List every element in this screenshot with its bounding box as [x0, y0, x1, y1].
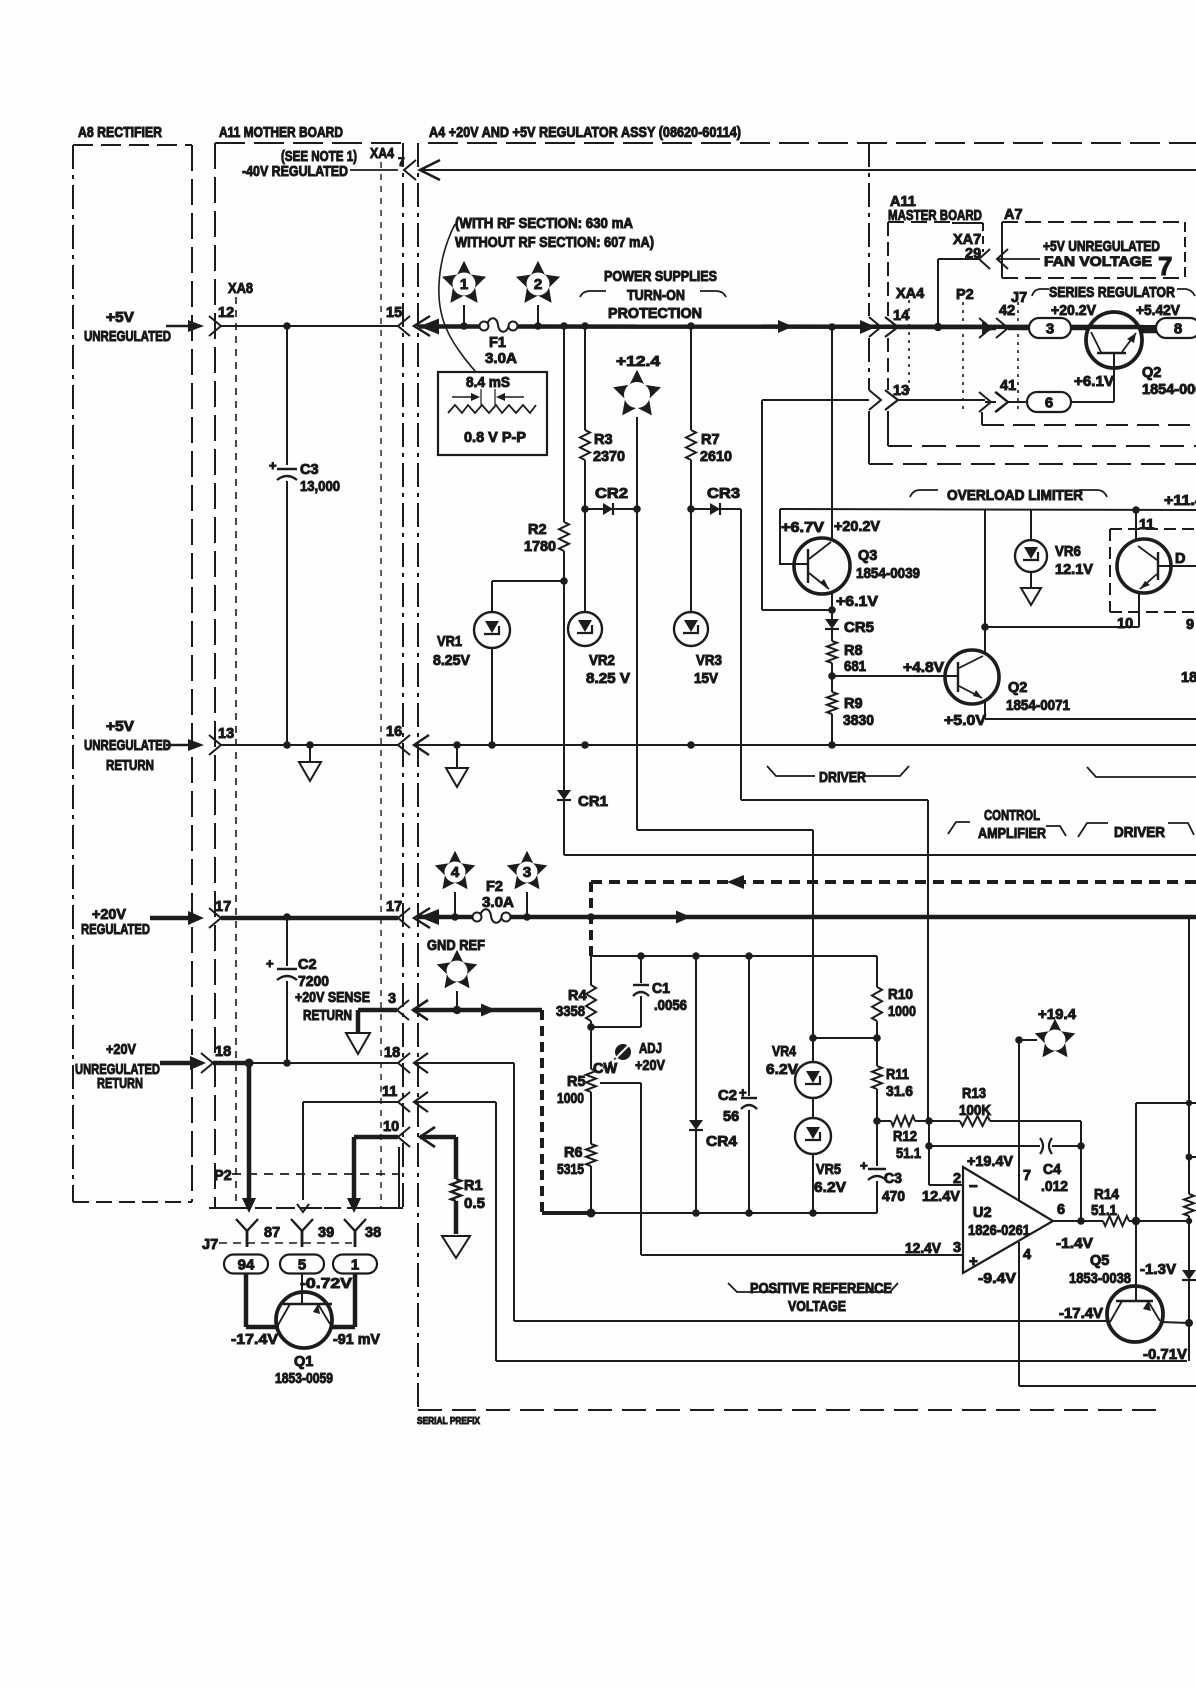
svg-text:+20.2V: +20.2V	[1051, 303, 1096, 319]
svg-text:-17.4V: -17.4V	[1059, 1306, 1103, 1322]
svg-text:56: 56	[723, 1109, 739, 1125]
svg-text:-40V REGULATED: -40V REGULATED	[242, 164, 348, 180]
svg-text:0.5: 0.5	[464, 1196, 485, 1212]
svg-text:R4: R4	[568, 988, 587, 1004]
svg-text:VR2: VR2	[589, 653, 615, 669]
svg-text:51.1: 51.1	[896, 1146, 921, 1162]
svg-text:SERIAL PREFIX: SERIAL PREFIX	[417, 1416, 480, 1427]
svg-text:6.2V: 6.2V	[766, 1062, 798, 1078]
svg-text:-1.3V: -1.3V	[1140, 1262, 1176, 1278]
svg-text:.012: .012	[1041, 1179, 1068, 1195]
svg-text:R8: R8	[844, 643, 863, 659]
svg-text:1853-0059: 1853-0059	[275, 1371, 333, 1387]
svg-text:+4.8V: +4.8V	[903, 660, 944, 676]
svg-text:1: 1	[460, 276, 468, 293]
svg-text:1854-0063: 1854-0063	[1142, 382, 1196, 398]
svg-text:ADJ: ADJ	[639, 1041, 662, 1057]
svg-text:+5V: +5V	[106, 719, 134, 735]
svg-text:CR4: CR4	[706, 1134, 737, 1150]
svg-text:8.4 mS: 8.4 mS	[466, 375, 510, 391]
svg-text:GND REF: GND REF	[427, 938, 485, 954]
svg-text:.0056: .0056	[654, 998, 687, 1014]
svg-text:U2: U2	[973, 1205, 992, 1221]
svg-text:UNREGULATED: UNREGULATED	[84, 329, 171, 345]
svg-text:C1: C1	[652, 981, 670, 997]
svg-text:VR5: VR5	[816, 1162, 841, 1178]
svg-text:3358: 3358	[556, 1004, 585, 1020]
svg-text:R3: R3	[594, 432, 613, 448]
svg-text:DRIVER: DRIVER	[1114, 825, 1165, 841]
svg-text:Q2: Q2	[1142, 365, 1161, 381]
svg-text:1780: 1780	[524, 539, 556, 555]
svg-text:F2: F2	[486, 879, 503, 895]
svg-text:51.1: 51.1	[1091, 1203, 1117, 1219]
svg-text:C3: C3	[884, 1171, 902, 1187]
svg-text:3830: 3830	[843, 713, 874, 729]
svg-text:+19.4: +19.4	[1038, 1007, 1076, 1023]
svg-text:DRIVER: DRIVER	[819, 770, 866, 786]
svg-text:12.4V: 12.4V	[905, 1241, 941, 1257]
svg-text:2370: 2370	[593, 449, 625, 465]
svg-text:+12.4: +12.4	[616, 354, 660, 370]
svg-text:31.6: 31.6	[886, 1084, 913, 1100]
svg-text:38: 38	[365, 1225, 381, 1241]
svg-text:42: 42	[999, 303, 1015, 319]
svg-text:-0.71V: -0.71V	[1143, 1347, 1187, 1363]
svg-text:AMPLIFIER: AMPLIFIER	[978, 826, 1046, 842]
svg-text:D: D	[1175, 551, 1185, 567]
svg-text:1854-0071: 1854-0071	[1006, 698, 1070, 714]
svg-text:1854-0039: 1854-0039	[856, 566, 920, 582]
svg-text:POWER SUPPLIES: POWER SUPPLIES	[604, 269, 717, 285]
svg-text:+20V: +20V	[106, 1042, 136, 1058]
svg-text:2610: 2610	[700, 449, 732, 465]
svg-text:C4: C4	[1043, 1162, 1061, 1178]
svg-text:XA4: XA4	[896, 286, 924, 302]
svg-text:87: 87	[264, 1225, 280, 1241]
svg-text:CR1: CR1	[578, 794, 608, 810]
svg-text:13: 13	[218, 726, 234, 742]
svg-text:-17.4V: -17.4V	[231, 1332, 278, 1348]
svg-text:CR3: CR3	[707, 486, 740, 502]
svg-text:12.4V: 12.4V	[922, 1189, 960, 1205]
svg-text:+: +	[860, 1158, 868, 1173]
svg-text:6.2V: 6.2V	[814, 1180, 846, 1196]
svg-text:REGULATED: REGULATED	[81, 922, 150, 938]
svg-text:3: 3	[1046, 321, 1054, 338]
svg-text:R6: R6	[564, 1145, 583, 1161]
svg-text:18: 18	[1181, 670, 1196, 686]
svg-text:A8 RECTIFIER: A8 RECTIFIER	[78, 125, 162, 141]
svg-text:Q2: Q2	[1008, 680, 1027, 696]
svg-text:RETURN: RETURN	[97, 1076, 143, 1092]
svg-text:11: 11	[1139, 517, 1154, 533]
svg-text:9: 9	[1186, 617, 1194, 633]
svg-text:R5: R5	[567, 1074, 586, 1090]
svg-text:FAN VOLTAGE: FAN VOLTAGE	[1044, 254, 1152, 269]
svg-text:0.8 V P-P: 0.8 V P-P	[464, 430, 526, 446]
svg-text:3: 3	[523, 864, 531, 881]
svg-text:R9: R9	[844, 696, 863, 712]
svg-text:A4 +20V AND +5V REGULATOR ASSY: A4 +20V AND +5V REGULATOR ASSY (08620-60…	[429, 125, 741, 141]
svg-text:7: 7	[1023, 1168, 1031, 1184]
svg-text:17: 17	[386, 899, 402, 915]
svg-text:VR1: VR1	[437, 634, 462, 650]
svg-text:+20.2V: +20.2V	[834, 519, 880, 535]
svg-text:POSITIVE REFERENCE: POSITIVE REFERENCE	[750, 1281, 892, 1297]
svg-text:P2: P2	[956, 287, 974, 303]
svg-text:4: 4	[1023, 1247, 1031, 1263]
svg-text:+: +	[266, 956, 274, 971]
svg-text:8.25V: 8.25V	[433, 653, 470, 669]
svg-text:+5V UNREGULATED: +5V UNREGULATED	[1043, 239, 1160, 255]
svg-text:CR5: CR5	[844, 620, 874, 636]
svg-text:R14: R14	[1094, 1187, 1119, 1203]
svg-text:+6.1V: +6.1V	[1074, 374, 1114, 390]
svg-text:R12: R12	[893, 1129, 917, 1145]
svg-text:4: 4	[451, 864, 460, 881]
svg-text:CW: CW	[593, 1061, 617, 1077]
svg-text:100K: 100K	[959, 1103, 991, 1119]
svg-text:VOLTAGE: VOLTAGE	[788, 1299, 846, 1315]
svg-text:+11.4: +11.4	[1164, 493, 1196, 509]
svg-text:(SEE NOTE 1): (SEE NOTE 1)	[281, 149, 357, 165]
svg-text:PROTECTION: PROTECTION	[608, 306, 702, 322]
svg-text:12: 12	[218, 305, 234, 321]
svg-text:41: 41	[1000, 378, 1016, 394]
svg-text:11: 11	[382, 1084, 397, 1100]
svg-text:12.1V: 12.1V	[1055, 562, 1093, 578]
svg-text:-1.4V: -1.4V	[1056, 1236, 1093, 1252]
svg-text:+19.4V: +19.4V	[967, 1154, 1013, 1170]
svg-text:1: 1	[351, 1257, 359, 1274]
svg-text:1853-0038: 1853-0038	[1069, 1271, 1131, 1287]
svg-text:CONTROL: CONTROL	[984, 808, 1040, 824]
svg-text:A7: A7	[1004, 207, 1023, 223]
svg-text:16: 16	[386, 724, 402, 740]
svg-text:XA8: XA8	[228, 281, 253, 297]
svg-text:17: 17	[215, 899, 231, 915]
svg-text:P2: P2	[214, 1168, 232, 1184]
svg-text:C3: C3	[300, 462, 319, 478]
svg-text:R7: R7	[701, 432, 720, 448]
svg-text:18: 18	[215, 1044, 231, 1060]
svg-text:J7: J7	[202, 1237, 218, 1253]
svg-text:14: 14	[893, 308, 909, 324]
svg-text:2: 2	[534, 276, 542, 293]
svg-text:2: 2	[953, 1171, 961, 1187]
svg-text:C2: C2	[718, 1088, 737, 1104]
svg-text:+: +	[269, 458, 277, 473]
svg-text:39: 39	[318, 1225, 334, 1241]
svg-text:CR2: CR2	[595, 486, 628, 502]
svg-text:13,000: 13,000	[300, 479, 340, 495]
svg-text:A11 MOTHER BOARD: A11 MOTHER BOARD	[219, 125, 343, 141]
svg-text:Q3: Q3	[858, 548, 877, 564]
svg-text:TURN-ON: TURN-ON	[627, 288, 685, 304]
svg-text:10: 10	[1117, 616, 1133, 632]
svg-text:-9.4V: -9.4V	[978, 1271, 1016, 1287]
svg-text:8: 8	[1174, 321, 1182, 338]
svg-text:XA4: XA4	[370, 146, 394, 162]
svg-text:Q1: Q1	[294, 1354, 313, 1370]
svg-text:WITHOUT RF SECTION: 607 mA): WITHOUT RF SECTION: 607 mA)	[455, 235, 654, 251]
svg-text:VR4: VR4	[772, 1044, 796, 1060]
svg-text:94: 94	[238, 1257, 255, 1274]
svg-text:+20V: +20V	[92, 907, 126, 923]
svg-text:-91 mV: -91 mV	[333, 1332, 380, 1348]
svg-text:+20V SENSE: +20V SENSE	[295, 990, 370, 1006]
svg-text:+: +	[969, 1253, 978, 1270]
svg-text:3: 3	[388, 991, 396, 1007]
svg-text:+5.0V: +5.0V	[944, 713, 986, 729]
svg-text:RETURN: RETURN	[106, 758, 154, 774]
svg-text:C2: C2	[298, 957, 317, 973]
svg-text:5315: 5315	[557, 1162, 584, 1178]
svg-text:+5V: +5V	[106, 310, 134, 326]
svg-text:OVERLOAD LIMITER: OVERLOAD LIMITER	[947, 488, 1083, 504]
svg-text:F1: F1	[489, 335, 506, 351]
svg-text:15V: 15V	[694, 671, 718, 687]
svg-text:15: 15	[386, 305, 402, 321]
svg-text:18: 18	[384, 1045, 400, 1061]
svg-text:RETURN: RETURN	[303, 1008, 352, 1024]
svg-text:VR3: VR3	[696, 653, 722, 669]
svg-text:5: 5	[298, 1257, 306, 1274]
svg-text:3.0A: 3.0A	[485, 351, 518, 367]
svg-text:681: 681	[844, 659, 866, 675]
svg-text:10: 10	[383, 1119, 399, 1135]
svg-text:−: −	[969, 1178, 978, 1195]
svg-text:+6.7V: +6.7V	[781, 520, 824, 536]
svg-text:3.0A: 3.0A	[482, 895, 515, 911]
svg-text:8.25 V: 8.25 V	[586, 671, 630, 687]
svg-text:7200: 7200	[298, 974, 329, 990]
svg-text:R1: R1	[464, 1178, 483, 1194]
svg-text:R2: R2	[528, 522, 547, 538]
svg-text:7: 7	[1158, 251, 1172, 281]
svg-text:SERIES REGULATOR: SERIES REGULATOR	[1049, 285, 1175, 301]
svg-text:1000: 1000	[888, 1004, 916, 1020]
svg-text:R11: R11	[886, 1067, 909, 1083]
svg-text:470: 470	[882, 1189, 905, 1205]
svg-text:+20V: +20V	[635, 1058, 665, 1074]
svg-text:R13: R13	[962, 1086, 986, 1102]
svg-text:1826-0261: 1826-0261	[968, 1223, 1030, 1239]
svg-text:3: 3	[953, 1240, 961, 1256]
svg-text:UNREGULATED: UNREGULATED	[84, 738, 171, 754]
svg-text:+5.42V: +5.42V	[1136, 303, 1180, 319]
svg-text:6: 6	[1057, 1202, 1065, 1218]
svg-text:-0.72V: -0.72V	[300, 1276, 352, 1292]
svg-text:Q5: Q5	[1090, 1253, 1109, 1269]
svg-text:7: 7	[398, 155, 405, 169]
svg-text:R10: R10	[888, 987, 913, 1003]
svg-text:VR6: VR6	[1055, 544, 1081, 560]
svg-text:(WITH RF SECTION: 630 mA: (WITH RF SECTION: 630 mA	[455, 216, 633, 232]
svg-text:13: 13	[893, 383, 909, 399]
svg-text:6: 6	[1045, 395, 1053, 412]
svg-text:1000: 1000	[557, 1091, 584, 1107]
svg-text:+6.1V: +6.1V	[836, 594, 878, 610]
